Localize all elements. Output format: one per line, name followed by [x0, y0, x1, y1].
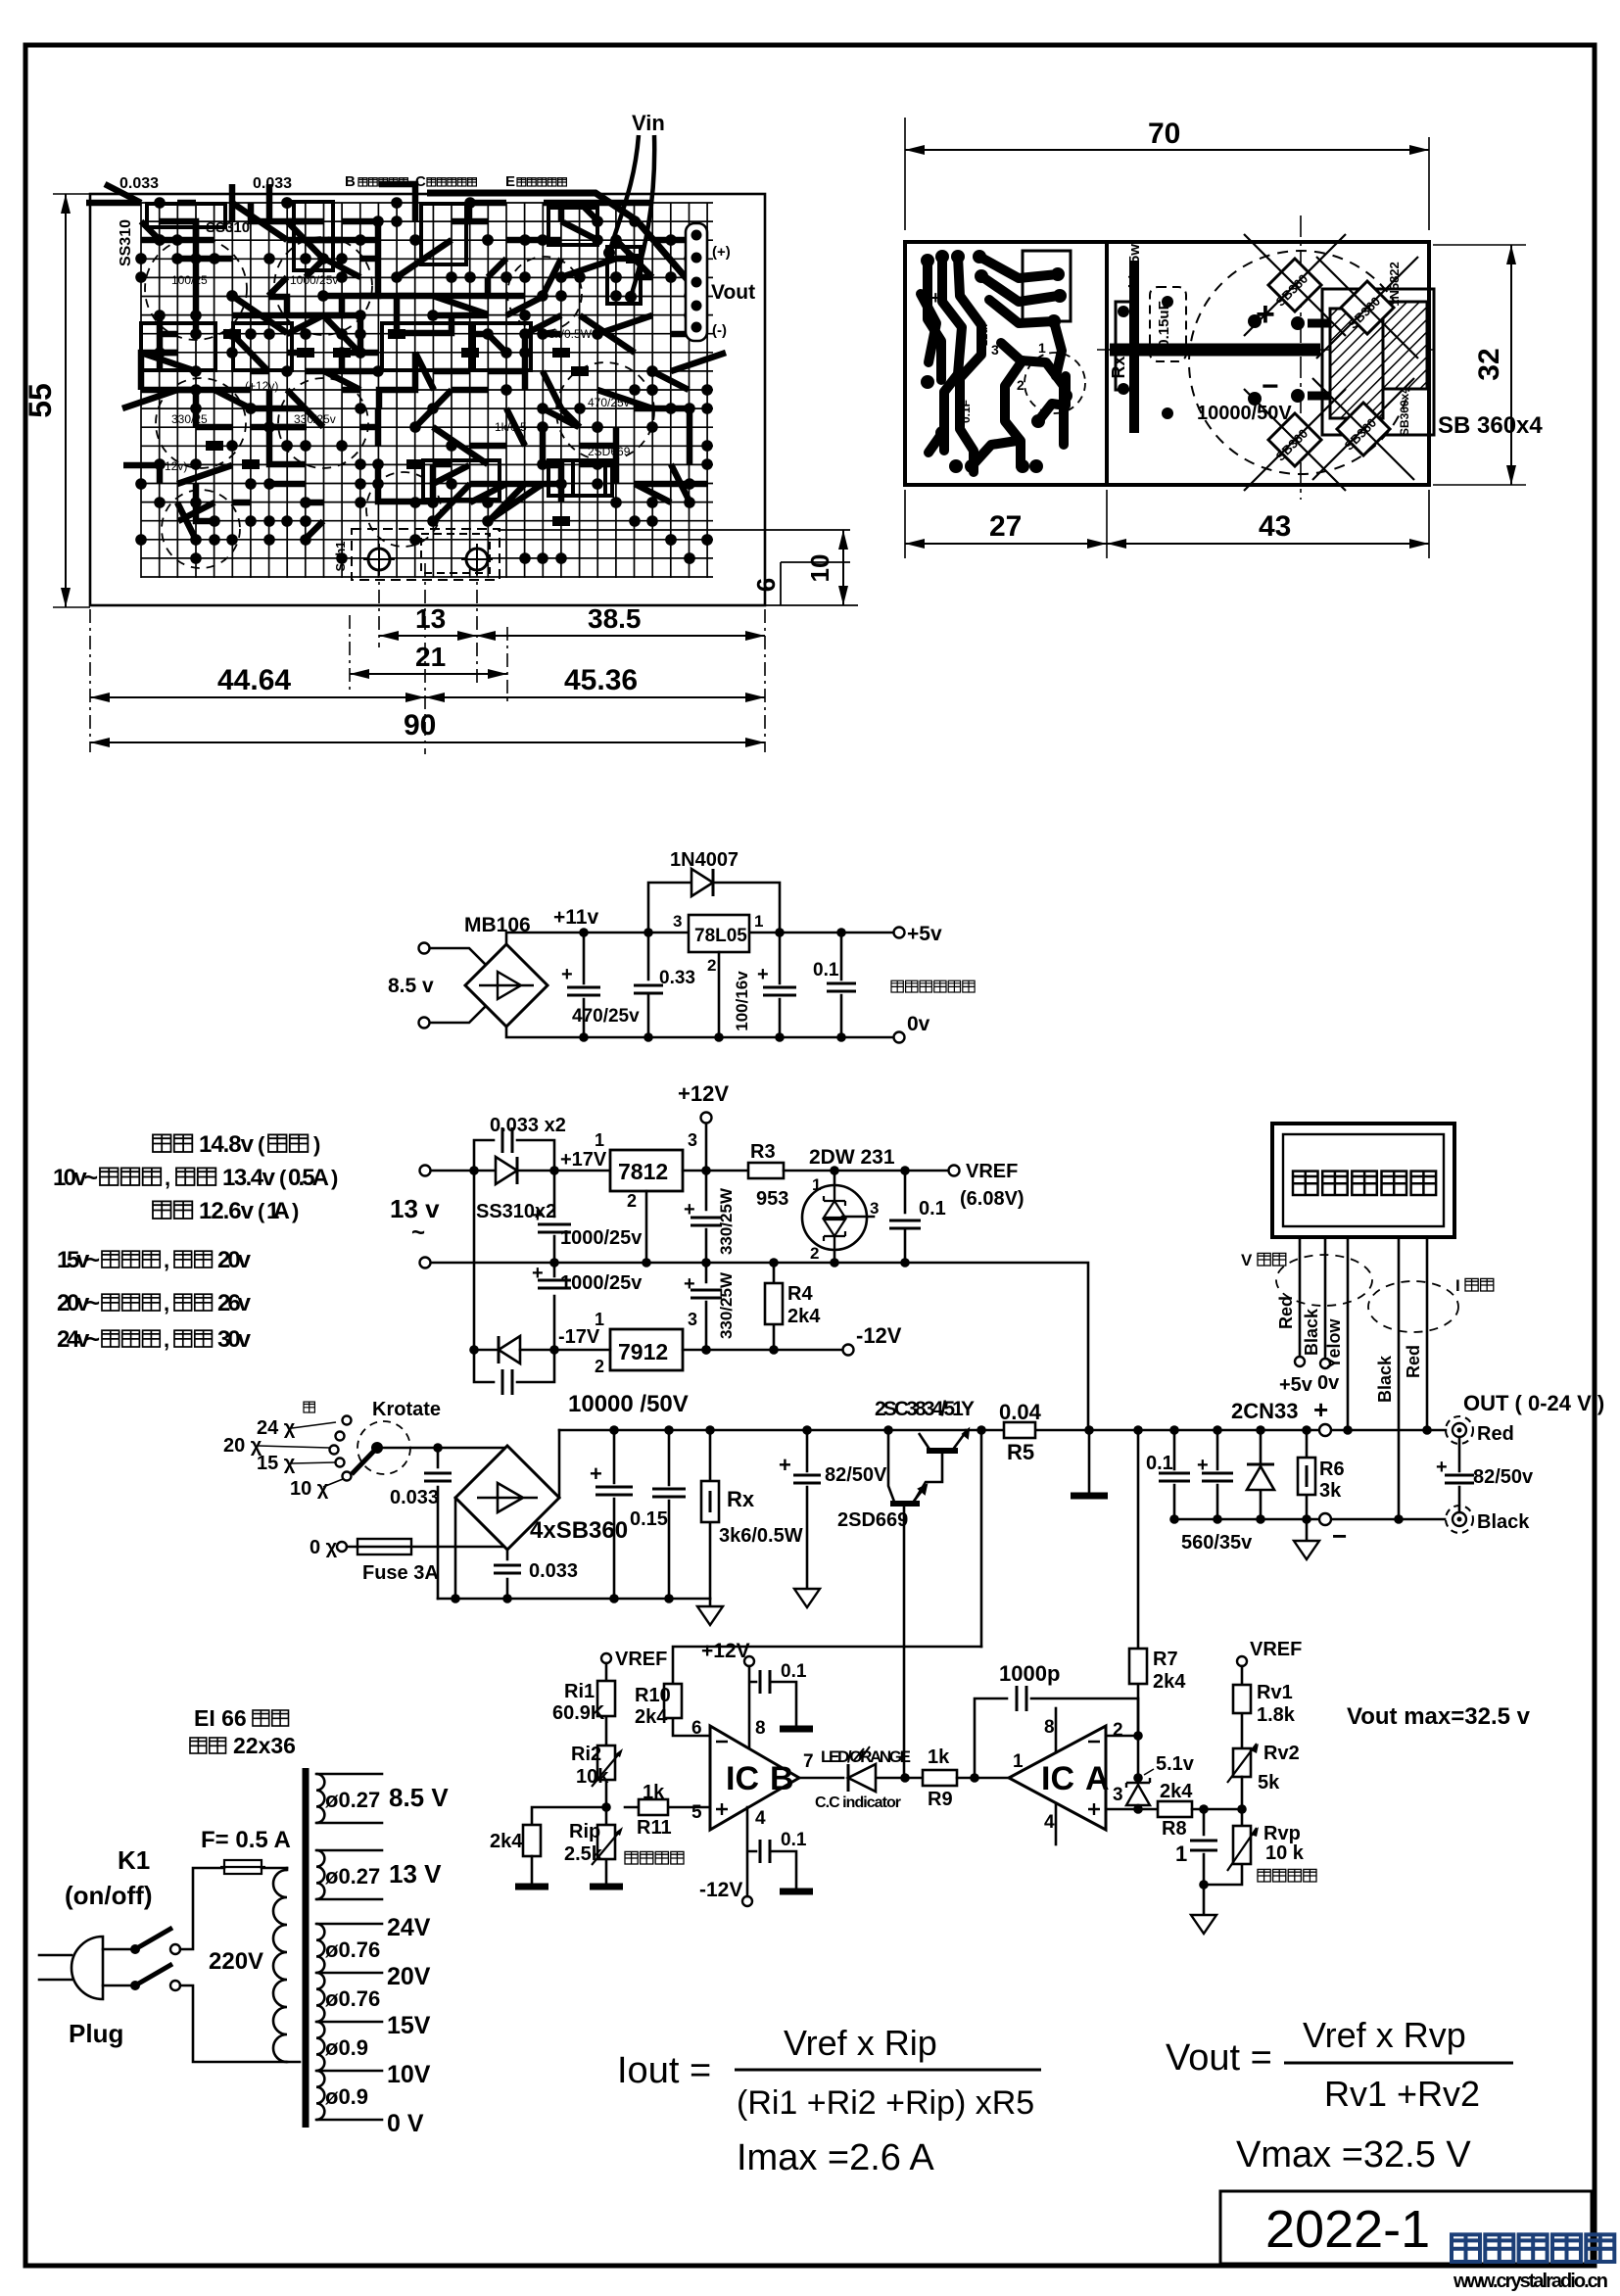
DC voltage info text — [153, 1134, 192, 1152]
svg-text:3: 3 — [688, 1130, 697, 1150]
svg-text:Sch1: Sch1 — [333, 541, 348, 571]
minus terminal on bus — [1319, 1513, 1331, 1525]
svg-text:78L05: 78L05 — [694, 926, 747, 946]
OUT red terminal — [1446, 1416, 1473, 1444]
svg-text:1: 1 — [1013, 1751, 1024, 1772]
PCB1 traces — [105, 184, 726, 540]
main power path — [223, 1391, 1604, 1778]
svg-text:22uF: 22uF — [978, 320, 990, 346]
svg-text:I: I — [1455, 1276, 1460, 1295]
potentiometer Rv2 5k — [1227, 1743, 1300, 1809]
svg-text:+11v: +11v — [553, 906, 598, 929]
mounting hole right — [461, 544, 493, 575]
node R7 drop — [1133, 1425, 1143, 1435]
svg-text:-12V: -12V — [699, 1879, 742, 1901]
PCB2 dim 27 — [905, 490, 1429, 558]
diode SS310 bottom — [499, 1336, 520, 1363]
svg-text:SS310: SS310 — [118, 219, 134, 266]
svg-text:(Ri1 +Ri2 +Rip) xR5: (Ri1 +Ri2 +Rip) xR5 — [737, 2084, 1034, 2122]
svg-text:220V: 220V — [209, 1948, 263, 1975]
ground bus — [438, 1598, 710, 1601]
diode SS310 top — [496, 1157, 517, 1184]
svg-text:Fuse 3A: Fuse 3A — [362, 1562, 439, 1584]
rail 7812 out — [683, 1170, 748, 1172]
svg-text:1: 1 — [1175, 1842, 1187, 1866]
svg-text:2: 2 — [1017, 377, 1024, 393]
svg-text:2DW 231: 2DW 231 — [809, 1146, 895, 1169]
svg-text:+: + — [590, 1461, 602, 1486]
svg-text:Ri1: Ri1 — [564, 1681, 595, 1702]
svg-text:13 V: 13 V — [389, 1859, 442, 1889]
svg-text:1: 1 — [595, 1130, 604, 1150]
svg-text:30v: 30v — [217, 1326, 252, 1353]
svg-text:20v: 20v — [217, 1247, 252, 1273]
node LED out — [900, 1773, 910, 1783]
svg-text:+: + — [930, 288, 941, 308]
svg-text:0.1F: 0.1F — [959, 400, 973, 423]
ground 82/50V — [794, 1589, 820, 1607]
ground under minus bus — [1306, 1519, 1309, 1541]
formula Vout — [1166, 2015, 1513, 2176]
vertical feed to negative diode — [473, 1171, 476, 1350]
svg-text:3: 3 — [1113, 1785, 1123, 1805]
PCB1 board outline — [90, 194, 765, 605]
svg-text:14.8v: 14.8v — [199, 1131, 255, 1158]
ground T after R5 — [1088, 1430, 1091, 1493]
+5v terminal — [894, 928, 905, 938]
op-amp control section — [490, 1425, 1531, 1934]
svg-text:10 χ: 10 χ — [290, 1478, 329, 1500]
ground bus triangle — [709, 1599, 712, 1606]
voltmeter wire red V — [1299, 1237, 1302, 1357]
svg-text:5k: 5k — [1258, 1772, 1280, 1794]
aux 5V supply — [388, 849, 975, 1043]
regulator 7812 — [595, 1130, 697, 1211]
capacitor 82/50v out — [1436, 1437, 1534, 1512]
node - top-left — [469, 1166, 479, 1175]
capacitor 0.33 — [634, 933, 695, 1037]
ground 2k4 — [515, 1884, 548, 1890]
node cap bottom — [1199, 1880, 1209, 1889]
svg-text:+12V: +12V — [678, 1081, 729, 1106]
svg-text:1: 1 — [595, 1310, 604, 1329]
svg-text:3: 3 — [673, 912, 682, 931]
bypass cap 0.033x2 top — [474, 1115, 566, 1171]
PCB2 divider — [1105, 242, 1109, 485]
svg-text:Rv2: Rv2 — [1263, 1743, 1300, 1764]
transistor Q2 2SD669 — [837, 1430, 927, 1778]
svg-text:0.1: 0.1 — [919, 1198, 946, 1220]
svg-text:+12V: +12V — [701, 1640, 750, 1662]
svg-text:330/25v: 330/25v — [294, 412, 336, 426]
svg-text:B: B — [770, 1760, 794, 1797]
svg-text:2: 2 — [810, 1244, 819, 1263]
svg-text:SS310: SS310 — [206, 219, 250, 236]
node Ri2 bottom — [601, 1802, 611, 1812]
svg-text:32: 32 — [1473, 348, 1505, 380]
svg-text:0.33: 0.33 — [659, 968, 695, 988]
resistor R3 953 — [748, 1141, 788, 1210]
bridge plus leg to rail — [558, 1430, 561, 1498]
voltage adjust label — [1258, 1869, 1316, 1882]
bridge 4xSB360 — [455, 1446, 628, 1550]
IC A pin2 wire — [1106, 1735, 1138, 1738]
78L05 pin2 wire — [718, 952, 721, 1037]
svg-text:330/25W: 330/25W — [717, 1271, 736, 1339]
capacitor 470/25v — [561, 933, 640, 1037]
wire R8 to Rv node — [1192, 1808, 1242, 1811]
Vin wires — [609, 135, 654, 297]
-12V supply IC B — [699, 1807, 813, 1906]
svg-text:10 k: 10 k — [1265, 1842, 1305, 1864]
0v terminal — [894, 1032, 905, 1043]
input terminal top — [420, 1166, 431, 1176]
svg-text:ø0.9: ø0.9 — [325, 2035, 368, 2060]
svg-text:3: 3 — [688, 1310, 697, 1329]
svg-text:Vout: Vout — [711, 281, 755, 304]
svg-text:F= 0.5 A: F= 0.5 A — [201, 1827, 291, 1853]
digital voltmeter box — [1272, 1124, 1454, 1237]
PCB1 grid — [141, 203, 713, 578]
PCB2 heatsink outer rect — [1322, 289, 1434, 435]
svg-text:−: − — [1262, 370, 1279, 403]
svg-text:IC: IC — [1041, 1760, 1074, 1797]
PCB1 dim 38.5 — [476, 603, 765, 641]
capacitor 82/50V — [779, 1430, 887, 1589]
svg-text:1k: 1k — [928, 1746, 950, 1768]
plus terminal on rail — [1319, 1424, 1331, 1436]
PCB1 dim 21 — [350, 642, 507, 679]
svg-text:SS310x2: SS310x2 — [476, 1201, 556, 1222]
svg-text:(: ( — [258, 1132, 265, 1157]
V meter dashed ellipse — [1276, 1255, 1372, 1306]
svg-text:Yelow: Yelow — [1324, 1317, 1344, 1368]
svg-text:+: + — [1197, 1455, 1209, 1476]
resistor R10 2k4 — [635, 1647, 981, 1736]
bridge minus leg — [454, 1498, 457, 1599]
PCB1 dim 13 — [379, 603, 477, 641]
svg-text:Vmax =32.5 V: Vmax =32.5 V — [1236, 2134, 1471, 2176]
potentiometer Rip 2.5k — [564, 1807, 623, 1884]
svg-text:0.15: 0.15 — [630, 1508, 668, 1530]
svg-text:VREF: VREF — [615, 1649, 667, 1670]
input terminal bottom — [419, 1018, 430, 1028]
svg-text:2: 2 — [627, 1191, 637, 1211]
svg-text:8: 8 — [1044, 1717, 1055, 1738]
PCB2 connector outline — [1023, 251, 1071, 321]
svg-text:5: 5 — [691, 1802, 702, 1823]
svg-text:,: , — [165, 1166, 170, 1190]
svg-text:1k/0.5: 1k/0.5 — [495, 420, 527, 434]
svg-text:2SC3834/51Y: 2SC3834/51Y — [875, 1398, 975, 1420]
input terminal top 8.5v — [419, 943, 430, 954]
svg-text:10000/50V: 10000/50V — [1197, 403, 1292, 424]
svg-text:Vref x Rip: Vref x Rip — [784, 2023, 937, 2063]
svg-text:10k: 10k — [576, 1766, 609, 1788]
PCB1 dim 45.36 — [425, 664, 765, 702]
+12V stub — [678, 1081, 729, 1175]
svg-text:Rv1 +Rv2: Rv1 +Rv2 — [1324, 2074, 1480, 2114]
mid 0V rail — [431, 1263, 1088, 1430]
PCB2 board outline — [905, 242, 1429, 485]
svg-text:470/25v: 470/25v — [588, 396, 630, 409]
bypass cap 0.033 bottom — [474, 1350, 554, 1395]
svg-text:R10: R10 — [635, 1685, 671, 1706]
capacitor 100/16v — [733, 933, 796, 1037]
voltmeter wire black V — [1324, 1237, 1327, 1359]
Vout connector — [686, 223, 707, 341]
PCB2 left copper traces — [921, 257, 1066, 472]
svg-text:2SD669: 2SD669 — [588, 445, 631, 458]
fuse F=0.5A — [201, 1827, 291, 1874]
svg-text:20v~: 20v~ — [57, 1290, 100, 1316]
svg-text:21: 21 — [415, 642, 446, 672]
main + rail — [559, 1429, 1446, 1432]
svg-text:B: B — [345, 173, 356, 190]
svg-text:2SD669: 2SD669 — [837, 1509, 908, 1531]
PCB2 left dashed circle — [1024, 353, 1085, 413]
capacitor 0.033 lower — [494, 1550, 578, 1599]
svg-text:10V: 10V — [387, 2061, 431, 2088]
svg-text:0.1: 0.1 — [781, 1830, 807, 1850]
svg-text:Vout max=32.5 v: Vout max=32.5 v — [1347, 1703, 1531, 1730]
feedback from R5 node — [980, 1430, 983, 1647]
node after R5 — [1084, 1425, 1094, 1435]
potentiometer Rvp 10k — [1204, 1809, 1305, 1885]
secondary 8.5V — [316, 1774, 324, 1823]
svg-text:Red: Red — [1276, 1296, 1296, 1329]
svg-text:2k4: 2k4 — [787, 1306, 821, 1327]
PCB1 dim 90 — [90, 709, 765, 747]
svg-text:7812: 7812 — [618, 1159, 668, 1184]
svg-text:IC: IC — [726, 1760, 759, 1797]
svg-text:1: 1 — [812, 1175, 821, 1194]
voltmeter wire black I — [1398, 1237, 1401, 1519]
svg-text:): ) — [313, 1132, 320, 1157]
capacitor 0.1 — [813, 933, 856, 1037]
svg-text:330/25: 330/25 — [171, 412, 208, 426]
0v bottom rail — [506, 1027, 893, 1037]
svg-text:13: 13 — [415, 603, 446, 634]
svg-text:Rx: Rx — [727, 1487, 755, 1511]
node red meter wire — [1422, 1425, 1432, 1435]
svg-text:Vin: Vin — [632, 111, 665, 135]
svg-text:1: 1 — [1038, 340, 1046, 356]
darlington node — [883, 1425, 893, 1435]
PCB1 component outlines — [141, 202, 641, 500]
transformer section — [39, 1705, 449, 2137]
PCB1 pads — [135, 197, 713, 564]
capacitor 1 — [1175, 1809, 1217, 1885]
svg-text:+: + — [684, 1199, 695, 1220]
op-amp IC B — [691, 1718, 814, 1830]
PCB1 traces dense left — [86, 184, 524, 521]
primary coil — [273, 1870, 287, 2062]
svg-text:-12V: -12V — [856, 1323, 902, 1348]
svg-text:V: V — [1241, 1251, 1253, 1269]
svg-text:0.5A: 0.5A — [288, 1165, 329, 1191]
wire input bottom to bridge — [430, 1006, 486, 1023]
PCB2 left pads — [921, 250, 1072, 473]
svg-text:R8: R8 — [1162, 1818, 1187, 1840]
svg-text:2k4: 2k4 — [1160, 1781, 1193, 1802]
svg-text:Plug: Plug — [69, 2019, 123, 2048]
svg-text:R7: R7 — [1153, 1649, 1178, 1670]
svg-text:60.9K: 60.9K — [552, 1702, 605, 1724]
LED/ORANGE CC indicator — [799, 1746, 923, 1811]
core bar — [303, 1768, 310, 2128]
svg-text:0.033: 0.033 — [390, 1487, 439, 1508]
svg-text:10v~: 10v~ — [53, 1165, 98, 1191]
PCB2 0.15uF outline — [1150, 287, 1186, 361]
svg-text:0v: 0v — [907, 1013, 930, 1035]
svg-text:C.C indicator: C.C indicator — [815, 1794, 901, 1811]
svg-text:2CN33: 2CN33 — [1231, 1399, 1298, 1423]
wire switch to bridge — [383, 1447, 507, 1450]
secondary main tapped winding — [316, 1924, 324, 2120]
svg-text:10000 /50V: 10000 /50V — [568, 1391, 689, 1417]
PCB2 cap pads — [1118, 296, 1305, 419]
svg-text:3: 3 — [991, 342, 999, 358]
PCB1 right extension 10/6 — [498, 530, 858, 605]
regulator 78L05 — [673, 912, 763, 975]
svg-text:ø0.27: ø0.27 — [325, 1864, 380, 1889]
svg-text:2022-1: 2022-1 — [1265, 2200, 1430, 2259]
PCB2 Rx resistor trace — [1116, 302, 1131, 390]
svg-text:+: + — [561, 964, 573, 985]
svg-text:E: E — [505, 173, 515, 190]
plug wires to switch — [103, 1949, 130, 1985]
svg-text:1000p: 1000p — [999, 1661, 1060, 1686]
VREF terminal right — [1237, 1656, 1247, 1666]
svg-text:+: + — [532, 1205, 544, 1226]
svg-text:55: 55 — [23, 383, 58, 418]
svg-text:7912: 7912 — [618, 1339, 668, 1364]
7812 pin2 wire — [645, 1191, 648, 1263]
mounting hole left — [363, 544, 395, 575]
svg-text:Red: Red — [1477, 1423, 1514, 1445]
svg-text:15 χ: 15 χ — [257, 1453, 296, 1474]
svg-text:+5v: +5v — [1279, 1374, 1313, 1396]
PCB2 thick bus trace — [1110, 344, 1320, 357]
svg-text:20V: 20V — [387, 1963, 431, 1990]
svg-text:Iout =: Iout = — [617, 2050, 711, 2091]
svg-text:,: , — [164, 1248, 169, 1272]
svg-text:Vref x Rvp: Vref x Rvp — [1303, 2015, 1466, 2055]
svg-text:C: C — [415, 173, 426, 190]
top rail wire — [431, 1170, 610, 1172]
regulator 7912 — [595, 1310, 697, 1376]
svg-text:26v: 26v — [217, 1290, 252, 1316]
+5v top rail — [506, 933, 893, 944]
svg-text:13.4v: 13.4v — [222, 1165, 276, 1191]
ground Rip — [590, 1884, 623, 1890]
PCB2 trace stubs to heatsink — [1308, 323, 1330, 396]
svg-text:0.15uF: 0.15uF — [1156, 301, 1172, 348]
resistor R7 2k4 — [1129, 1430, 1186, 1736]
svg-text:0.04: 0.04 — [999, 1400, 1042, 1424]
svg-text:ø0.27: ø0.27 — [325, 1788, 380, 1812]
PCB1 solid component pads — [206, 254, 643, 526]
svg-text:38.5: 38.5 — [588, 603, 642, 634]
resistor 2k4 bias — [490, 1825, 541, 1884]
PCB1 dim 55 — [23, 194, 90, 607]
svg-text:ø0.76: ø0.76 — [325, 1937, 380, 1962]
svg-text:0.033: 0.033 — [253, 175, 292, 192]
PCB1 top bus trace — [427, 193, 695, 289]
resistor R5 0.04 — [999, 1400, 1042, 1464]
capacitor 0.1 out — [1146, 1430, 1190, 1519]
zener 5.1v — [1126, 1736, 1195, 1809]
transistor Q1 2SC3834 — [914, 1429, 969, 1502]
svg-text:2.5k: 2.5k — [564, 1843, 603, 1865]
svg-text:2: 2 — [595, 1357, 604, 1376]
svg-text:,: , — [164, 1291, 169, 1315]
svg-text:70: 70 — [1148, 118, 1180, 150]
resistor R4 2k4 — [765, 1263, 821, 1350]
PCB1 extension lines bottom — [90, 451, 765, 754]
svg-text:): ) — [292, 1199, 299, 1223]
svg-text:0.1: 0.1 — [781, 1661, 807, 1682]
PCB1 component-side layout — [86, 111, 765, 605]
I meter dashed ellipse — [1368, 1281, 1458, 1332]
svg-text:R5: R5 — [1007, 1440, 1034, 1464]
svg-text:5.1v: 5.1v — [1156, 1753, 1195, 1775]
svg-text:24V: 24V — [387, 1914, 431, 1941]
svg-text:(+): (+) — [712, 244, 731, 261]
svg-text:VREF: VREF — [1250, 1639, 1302, 1660]
svg-text:Rx: Rx — [1109, 356, 1128, 378]
svg-text:44.64: 44.64 — [217, 664, 291, 696]
node yellow wire — [1343, 1425, 1353, 1435]
svg-text:4: 4 — [1044, 1812, 1055, 1833]
svg-text:6: 6 — [751, 578, 781, 592]
svg-text:82/50v: 82/50v — [1473, 1466, 1534, 1488]
svg-text:(-12v): (-12v) — [157, 459, 187, 473]
svg-text:15v~: 15v~ — [57, 1247, 100, 1273]
op-amp IC A (mirrored) — [1009, 1717, 1123, 1833]
svg-text:SB360x4: SB360x4 — [1398, 387, 1411, 436]
svg-text:SB 360x4: SB 360x4 — [1438, 412, 1543, 439]
svg-text:Krotate: Krotate — [372, 1399, 441, 1420]
diode 2CN33 — [1231, 1399, 1298, 1519]
bottom rail wires — [474, 1349, 842, 1352]
svg-text:Vout =: Vout = — [1166, 2037, 1272, 2079]
svg-text:A: A — [1085, 1760, 1110, 1797]
resistor Ri1 60.9K — [552, 1663, 615, 1746]
tap wires — [259, 1422, 343, 1487]
svg-text:0.033: 0.033 — [529, 1560, 578, 1582]
svg-text:(-): (-) — [712, 322, 727, 339]
svg-text:15V: 15V — [387, 2012, 431, 2039]
ground below cap — [1203, 1885, 1206, 1915]
minus bus — [1174, 1518, 1445, 1521]
svg-text:82/50V: 82/50V — [825, 1464, 887, 1486]
node R9 out — [970, 1773, 979, 1783]
capacitor 330/25v lower — [684, 1263, 736, 1350]
svg-text:7: 7 — [803, 1751, 814, 1772]
resistor R6 3k — [1298, 1430, 1345, 1519]
svg-text:(+12v): (+12v) — [245, 379, 278, 393]
svg-text:(6.08V): (6.08V) — [960, 1188, 1024, 1210]
PCB1 dashed component rect — [352, 529, 500, 580]
plug — [39, 1937, 123, 2048]
svg-text:(: ( — [279, 1166, 287, 1190]
resistor Rx 3k6/0.5W — [701, 1430, 803, 1599]
svg-text:1: 1 — [754, 912, 763, 931]
svg-text:24v~: 24v~ — [57, 1326, 100, 1353]
svg-text:560/35v: 560/35v — [1181, 1532, 1253, 1554]
